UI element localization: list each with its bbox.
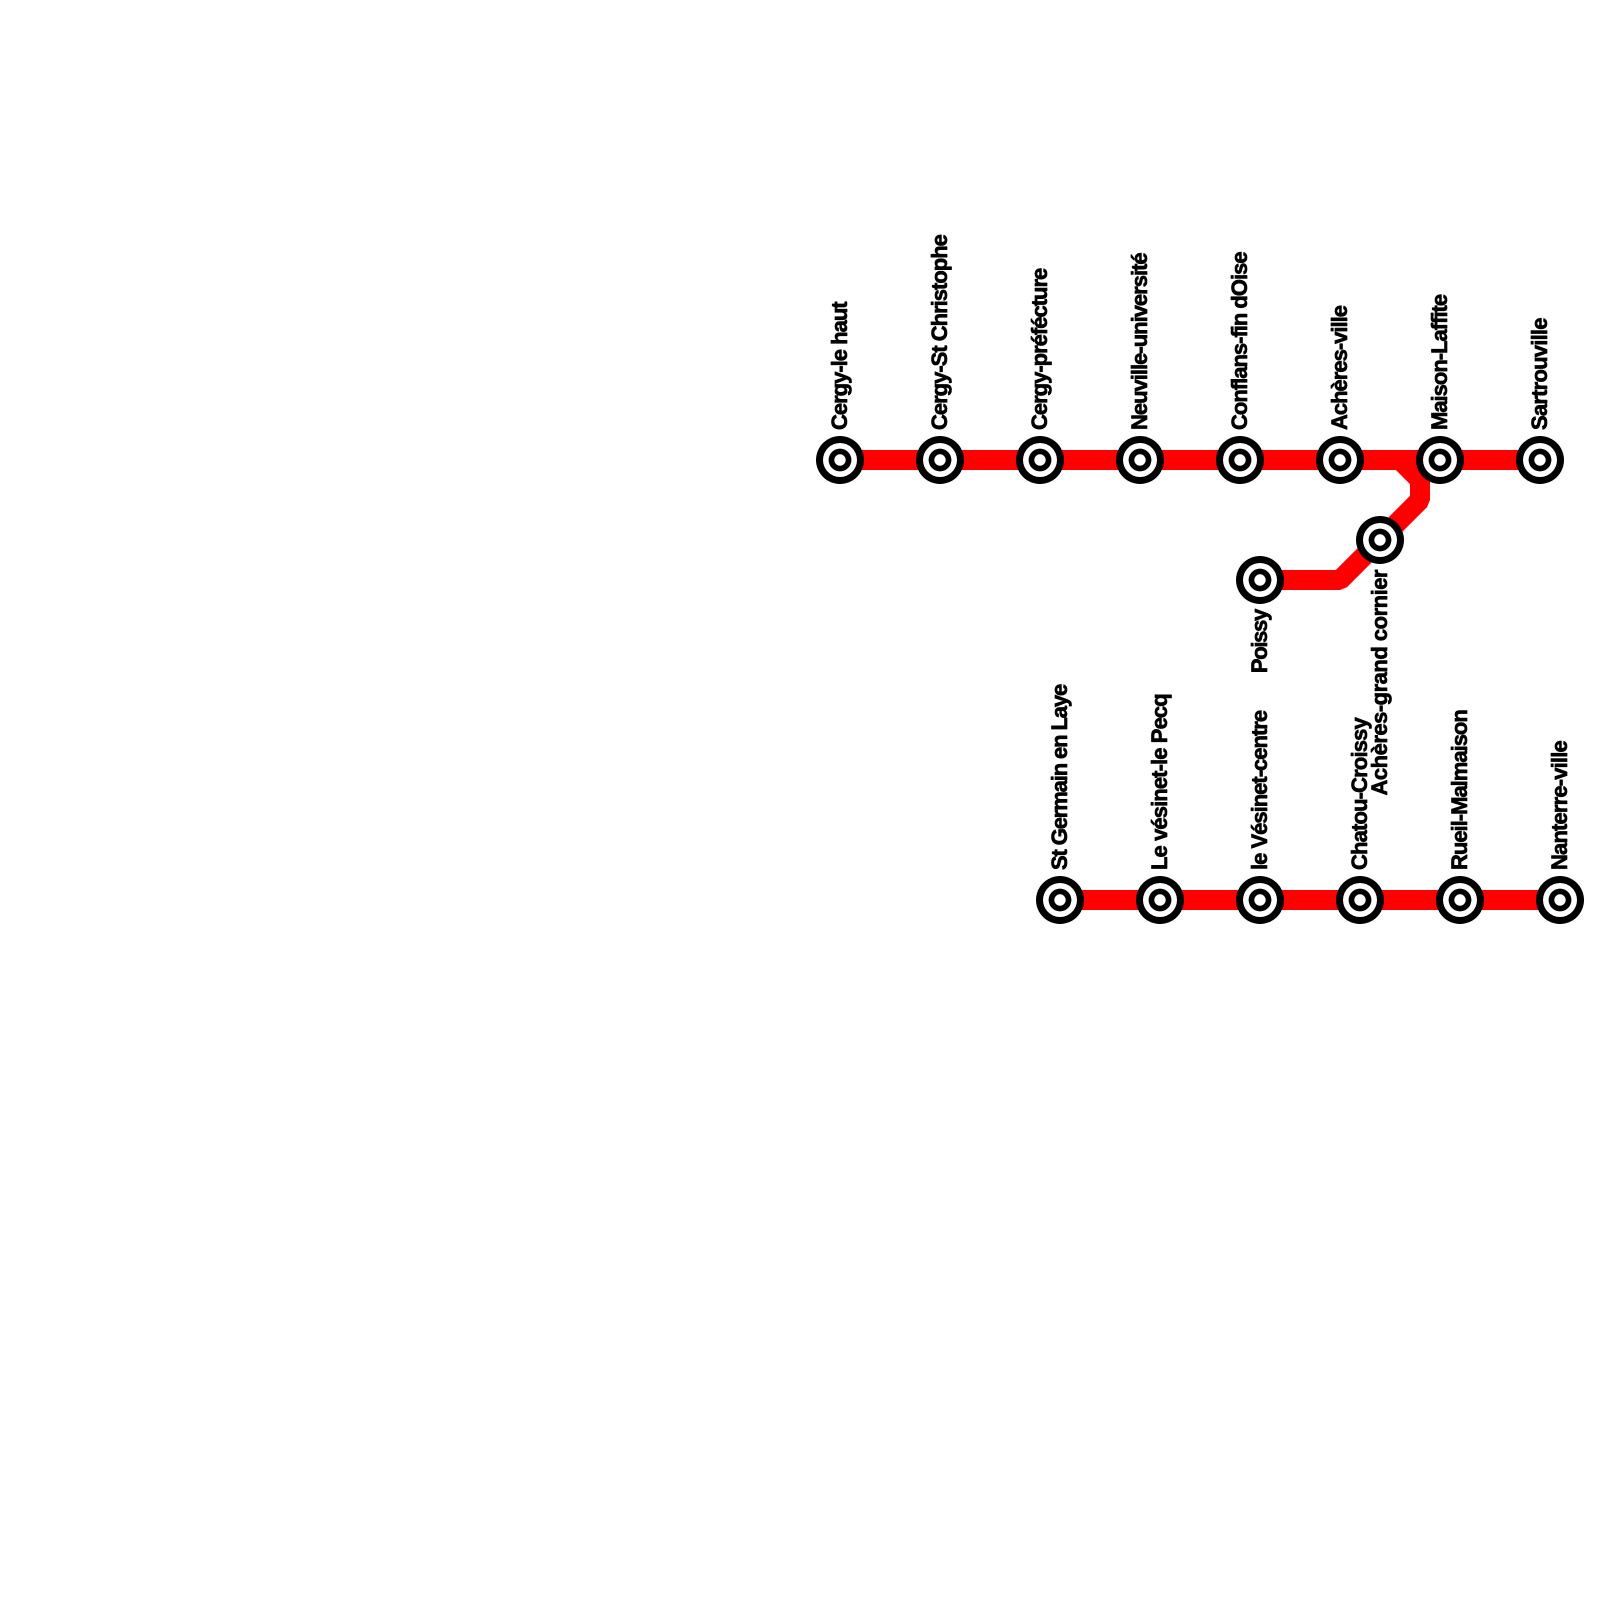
label: Sartrouville	[1527, 318, 1552, 430]
svg-text:Rueil-Malmaison: Rueil-Malmaison	[1447, 710, 1472, 870]
label: Rueil-Malmaison	[1447, 710, 1472, 870]
label: Le vésinet-le Pecq	[1147, 694, 1172, 870]
label: Cergy-St Christophe	[927, 234, 952, 430]
label: St Germain en Laye	[1047, 684, 1072, 870]
node: station Sartrouville	[1516, 436, 1564, 484]
label: Poissy	[1247, 608, 1272, 673]
svg-text:Poissy: Poissy	[1247, 608, 1272, 673]
node: station Rueil-Malmaison	[1436, 876, 1484, 924]
node: station St Germain en Laye	[1036, 876, 1084, 924]
node: station Achères-grand cornier	[1356, 516, 1404, 564]
svg-text:Cergy-St Christophe: Cergy-St Christophe	[927, 234, 952, 430]
node: station Poissy	[1236, 556, 1284, 604]
node: station Chatou-Croissy	[1336, 876, 1384, 924]
node: station Cergy-préfécture	[1016, 436, 1064, 484]
svg-text:Sartrouville: Sartrouville	[1527, 318, 1552, 430]
node: station Maison-Laffite	[1416, 436, 1464, 484]
label: Conflans-fin dOise	[1227, 252, 1252, 430]
node: station Achères-ville	[1316, 436, 1364, 484]
node: station Le vésinet-le Pecq	[1136, 876, 1184, 924]
svg-text:le Vésinet-centre: le Vésinet-centre	[1247, 710, 1272, 870]
svg-text:Conflans-fin dOise: Conflans-fin dOise	[1227, 252, 1252, 430]
svg-text:Achères-ville: Achères-ville	[1327, 305, 1352, 430]
node: station le Vésinet-centre	[1236, 876, 1284, 924]
node: station Neuville-université	[1116, 436, 1164, 484]
svg-text:Maison-Laffite: Maison-Laffite	[1427, 294, 1452, 430]
node: station Cergy-St Christophe	[916, 436, 964, 484]
svg-text:Cergy-le haut: Cergy-le haut	[827, 301, 852, 430]
svg-text:St Germain en Laye: St Germain en Laye	[1047, 684, 1072, 870]
label: Achères-grand cornier	[1367, 569, 1392, 795]
label: Chatou-Croissy	[1347, 716, 1372, 870]
svg-text:Neuville-université: Neuville-université	[1127, 253, 1152, 430]
node: station Cergy-le haut	[816, 436, 864, 484]
node: station Nanterre-ville	[1536, 876, 1584, 924]
svg-text:Cergy-préfécture: Cergy-préfécture	[1027, 268, 1052, 430]
label: Maison-Laffite	[1427, 294, 1452, 430]
label: Cergy-préfécture	[1027, 268, 1052, 430]
label: Neuville-université	[1127, 253, 1152, 430]
label: le Vésinet-centre	[1247, 710, 1272, 870]
wire: Poissy branch (junction to Poissy)	[1260, 460, 1420, 580]
svg-text:Le vésinet-le Pecq: Le vésinet-le Pecq	[1147, 694, 1172, 870]
svg-text:Chatou-Croissy: Chatou-Croissy	[1347, 716, 1372, 870]
node: station Conflans-fin dOise	[1216, 436, 1264, 484]
svg-text:Nanterre-ville: Nanterre-ville	[1547, 741, 1572, 870]
label: Achères-ville	[1327, 305, 1352, 430]
wire: St Germain line (St Germain en Laye to Nanterre-ville)	[1060, 890, 1560, 910]
label: Cergy-le haut	[827, 301, 852, 430]
wire: Cergy branch main line (Cergy-le haut to Sartrouville)	[840, 450, 1540, 470]
label: Nanterre-ville	[1547, 741, 1572, 870]
